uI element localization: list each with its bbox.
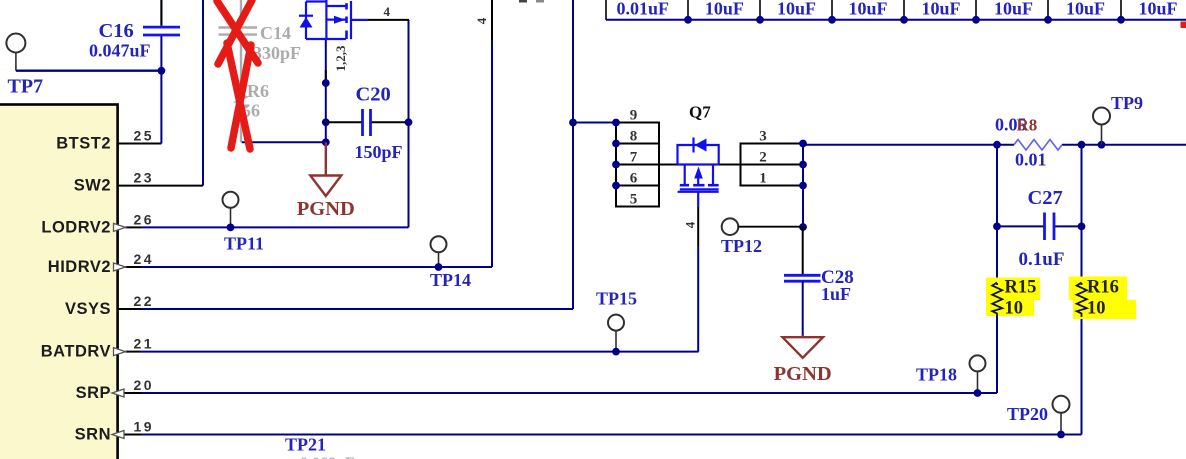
svg-text:150pF: 150pF [355,142,403,162]
svg-text:10: 10 [1087,299,1106,319]
svg-text:C14: C14 [260,23,291,43]
svg-text:SRP: SRP [76,384,111,402]
svg-text:0.01uF: 0.01uF [617,0,670,19]
svg-text:TP20: TP20 [1007,404,1048,424]
svg-text:TP14: TP14 [430,270,471,290]
svg-text:26: 26 [134,211,155,227]
svg-text:1uF: 1uF [821,284,851,304]
svg-text:TP9: TP9 [1111,93,1143,113]
svg-text:TP15: TP15 [596,289,637,309]
svg-text:4: 4 [474,17,489,24]
svg-text:10uF: 10uF [705,0,744,19]
svg-text:10uF: 10uF [921,0,960,19]
svg-text:4: 4 [683,221,698,228]
svg-text:6: 6 [630,171,638,187]
svg-text:SW2: SW2 [74,177,111,195]
svg-text:LODRV2: LODRV2 [41,218,111,236]
svg-text:0.068uF: 0.068uF [300,455,355,459]
svg-text:TP18: TP18 [916,365,957,385]
svg-text:1: 1 [759,171,767,187]
svg-text:PGND: PGND [297,198,355,220]
svg-text:C16: C16 [99,20,134,42]
svg-text:TP12: TP12 [721,236,762,256]
svg-text:10uF: 10uF [1066,0,1105,19]
svg-text:Q7: Q7 [689,103,711,122]
svg-text:C20: C20 [356,84,391,106]
svg-text:10uF: 10uF [848,0,887,19]
svg-text:21: 21 [134,336,155,352]
svg-text:R6: R6 [247,81,269,101]
svg-text:19: 19 [134,419,155,435]
svg-text:HIDRV2: HIDRV2 [48,258,111,276]
svg-text:10uF: 10uF [777,0,816,19]
svg-text:0.1uF: 0.1uF [1019,249,1065,270]
svg-text:TP11: TP11 [224,234,264,254]
svg-text:0.01: 0.01 [1015,150,1047,170]
svg-text:10: 10 [1005,299,1024,319]
svg-text:BTST2: BTST2 [56,135,111,153]
svg-text:PGND: PGND [774,363,832,385]
svg-text:10uF: 10uF [1138,0,1177,19]
svg-text:22: 22 [134,293,155,309]
svg-text:7: 7 [630,150,638,166]
svg-text:TP21: TP21 [285,435,326,455]
svg-text:R8: R8 [1017,116,1038,135]
svg-text:23: 23 [134,170,155,186]
svg-text:VSYS: VSYS [65,300,111,318]
svg-text:C27: C27 [1028,187,1063,209]
svg-text:2: 2 [759,150,767,166]
svg-text:3: 3 [759,129,767,145]
svg-text:BATDRV: BATDRV [41,343,111,361]
svg-text:20: 20 [134,377,155,393]
svg-text:R16: R16 [1087,278,1119,298]
svg-text:0.047uF: 0.047uF [89,41,151,61]
svg-text:25: 25 [134,128,155,144]
svg-text:10uF: 10uF [994,0,1033,19]
svg-text:8: 8 [630,129,638,145]
svg-text:SRN: SRN [75,426,111,444]
svg-text:TP7: TP7 [8,76,44,98]
svg-text:5: 5 [630,192,638,208]
svg-text:R15: R15 [1005,278,1037,298]
svg-text:24: 24 [134,251,155,267]
svg-text:1,2,3: 1,2,3 [333,45,348,72]
svg-text:9: 9 [630,108,638,124]
svg-text:4: 4 [384,4,391,19]
